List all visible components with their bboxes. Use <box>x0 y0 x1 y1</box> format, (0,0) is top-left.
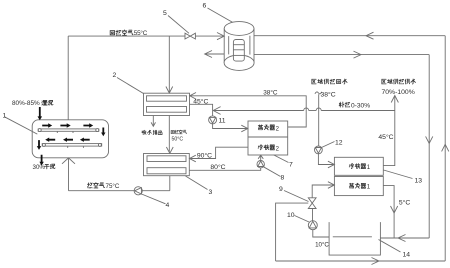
wire: box3 bottom to loop <box>169 176 171 191</box>
svg-text:80%-85%: 80%-85% <box>12 100 40 107</box>
wire: condenser 6 right outlet y=54.6 <box>254 54 429 56</box>
label: condenser 1 text <box>349 164 370 172</box>
evaporator 1 <box>334 177 383 196</box>
svg-text:5: 5 <box>163 10 167 17</box>
label 3 leader <box>186 176 208 190</box>
svg-text:75°C: 75°C <box>106 183 120 190</box>
arrow right on bottom return <box>372 258 380 265</box>
pump 11 <box>209 116 217 124</box>
arrow wide into dryer bottom <box>62 158 75 164</box>
heat exchanger 2 <box>144 93 190 115</box>
wire: pump12 to condenser 1 <box>318 154 333 165</box>
valve 9 three-way <box>308 198 316 209</box>
label 9 leader <box>284 191 309 202</box>
pump 12 <box>315 146 323 154</box>
arrow into box2 right <box>190 93 196 100</box>
label: 30% dry sludge <box>33 164 56 171</box>
wire: valve9 up to evaporator 1 inlet <box>312 185 333 198</box>
wire: left outer riser x=275.6 to valve 9 <box>276 203 309 261</box>
valve 5 <box>185 33 195 39</box>
pump 8 <box>257 161 264 168</box>
label 8 leader <box>264 167 281 177</box>
svg-text:38°C: 38°C <box>321 91 336 99</box>
wire: hot air inlet vertical to dryer bottom <box>68 158 70 191</box>
arrow up to district supply <box>391 96 398 103</box>
arrow into evaporator1 left <box>328 182 335 189</box>
wire: evaporator1 right 5C down to tank return <box>383 186 394 238</box>
label 7 leader <box>274 155 289 163</box>
condensate drain from heat exchanger 2 <box>152 116 154 126</box>
arrow into condenser 1 left <box>328 161 335 168</box>
svg-text:2: 2 <box>113 72 117 79</box>
arrow exhaust pointing left <box>205 51 212 58</box>
svg-text:14: 14 <box>403 252 411 259</box>
svg-text:11: 11 <box>219 118 226 125</box>
wire: outer right main x=445.2 <box>444 36 446 261</box>
arrow right on outlet line <box>354 51 362 58</box>
arrow into box3 right 90C <box>190 155 196 162</box>
label: district heating return water <box>312 79 347 84</box>
dryer 1 body <box>32 120 108 158</box>
svg-text:30%: 30% <box>33 164 46 171</box>
svg-text:3: 3 <box>209 189 213 196</box>
svg-text:7: 7 <box>289 162 293 169</box>
svg-text:0-30%: 0-30% <box>351 102 370 109</box>
wire: dryer riser x=68 <box>67 36 69 120</box>
wire: top main line y=36 dryer riser to valve 5 to condenser 6 <box>68 35 224 37</box>
arrow left on top main into condenser 6 <box>366 32 374 39</box>
svg-text:1: 1 <box>3 113 7 120</box>
label 1 leader <box>5 117 38 134</box>
label 6 leader <box>208 8 236 24</box>
svg-text:9: 9 <box>279 186 283 193</box>
wire: 38C return into box2 from evaporator2 <box>190 96 307 127</box>
bottom conveyor belt <box>42 143 101 148</box>
wire: inner right main x=429.2 down <box>428 55 430 238</box>
label: evaporator 2 text <box>258 125 279 132</box>
wire: 45C out of box2 down to pump 11 <box>190 104 213 116</box>
svg-text:1: 1 <box>367 165 371 171</box>
label: evaporator 1 text <box>349 183 370 190</box>
label: supplementary heat 0-30% <box>339 102 370 109</box>
pump 10 <box>308 221 317 230</box>
fan 4 <box>134 187 142 195</box>
svg-text:12: 12 <box>335 140 343 147</box>
svg-text:90°C: 90°C <box>197 152 212 160</box>
wire: box3 to pump8 80C <box>189 168 260 170</box>
label 4 leader <box>142 194 166 204</box>
svg-text:45°C: 45°C <box>378 133 393 141</box>
arrow into evaporator 2 left <box>241 125 248 132</box>
svg-text:6: 6 <box>203 3 207 10</box>
arrow down on 5C line <box>391 206 398 213</box>
wire: condenser1 right to supply riser 45C <box>383 96 395 166</box>
arrow into heat exchanger 3 top <box>166 147 173 153</box>
arrow into heat exchanger 2 top <box>166 87 173 94</box>
svg-text:2: 2 <box>276 146 280 152</box>
label: condensate out <box>142 130 162 134</box>
label 2 leader <box>117 78 144 94</box>
spray condenser 6 <box>224 22 254 71</box>
top conveyor belt <box>38 129 99 133</box>
label: district heating supply water <box>382 79 416 84</box>
condenser 1 <box>334 157 383 175</box>
label 10 leader <box>295 216 310 223</box>
evaporator 2 <box>248 121 288 155</box>
wire: branch down to heat exchanger 2 <box>168 36 170 92</box>
arrow left into tank <box>398 235 406 242</box>
label 14 leader <box>379 240 401 253</box>
wire: pump8 up to condenser2 <box>260 155 262 160</box>
wire: tank return line y=238 <box>380 237 429 239</box>
svg-text:70%-100%: 70%-100% <box>382 89 415 96</box>
svg-text:80°C: 80°C <box>210 163 225 171</box>
arrow up on outer right main <box>442 144 449 151</box>
svg-text:55°C: 55°C <box>134 29 148 37</box>
wire: supplementary heat line y=110.5 with hops <box>214 108 395 111</box>
wire: pump 11 to evaporator 2 <box>213 124 247 129</box>
svg-text:38°C: 38°C <box>263 88 278 96</box>
wire: bottom outer return y=261 <box>276 260 446 262</box>
svg-text:50°C: 50°C <box>172 137 184 143</box>
label 12 leader <box>322 142 335 148</box>
svg-text:13: 13 <box>415 178 423 185</box>
wire: top main line right of condenser 6 <box>254 35 445 37</box>
svg-text:2: 2 <box>276 126 280 132</box>
arrow up into condenser2 bottom <box>258 155 263 159</box>
wire: district return 38C vertical down to pump 12 <box>318 94 320 146</box>
water tank 14 <box>329 222 380 255</box>
wire: valve9 down to pump 10 <box>312 209 314 221</box>
wire: pump10 suction from tank <box>313 230 329 237</box>
label: recovered air 55C top <box>110 29 148 37</box>
squiggle on return riser <box>315 92 322 94</box>
condenser 2 divider <box>248 136 288 138</box>
svg-text:10°C: 10°C <box>315 241 329 248</box>
svg-text:4: 4 <box>166 202 170 209</box>
label 5 leader <box>168 16 189 34</box>
wire: hot air loop bottom y=190.7 <box>69 190 170 192</box>
label: reheated air 50C small <box>171 130 187 143</box>
arrow down on inner right main <box>426 136 433 143</box>
label: hot air 75C <box>87 183 119 190</box>
label 13 leader <box>384 170 413 179</box>
wire: exhaust stub left of condenser 6 <box>205 53 225 55</box>
svg-text:8: 8 <box>281 175 285 182</box>
bold flow arrows inside dryer <box>37 107 106 166</box>
heat exchanger 3 <box>144 154 190 176</box>
arrow into condenser column 6 left <box>217 33 224 40</box>
svg-text:5°C: 5°C <box>399 199 410 207</box>
wire: condenser2 to box3 90C <box>190 147 249 158</box>
arrow left at end of supplementary line <box>213 107 220 115</box>
svg-text:45°C: 45°C <box>193 97 208 105</box>
svg-text:10: 10 <box>287 212 295 219</box>
label: 80-85% wet sludge <box>12 100 53 107</box>
svg-text:1: 1 <box>367 185 371 191</box>
wire: air 50C from box2 to box3 <box>168 116 170 153</box>
label: condenser 2 text <box>258 145 279 153</box>
